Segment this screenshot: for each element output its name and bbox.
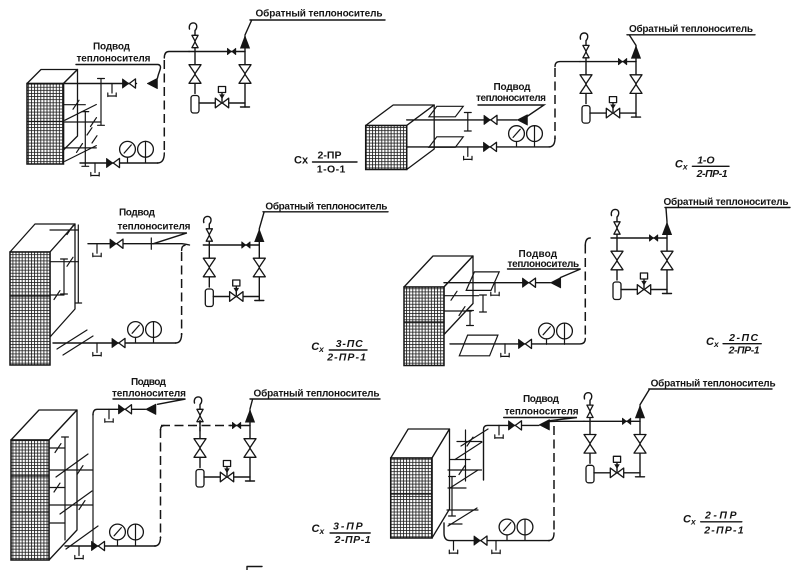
svg-text:Обратный теплоноситель: Обратный теплоноситель: [651, 377, 776, 389]
svg-text:3-ПР: 3-ПР: [333, 521, 364, 533]
svg-text:Обратный теплоноситель: Обратный теплоноситель: [254, 388, 380, 400]
svg-text:Сх: Сх: [294, 155, 309, 167]
svg-text:Обратный теплоноситель: Обратный теплоноситель: [265, 200, 387, 212]
svg-text:1-О-1: 1-О-1: [317, 163, 346, 175]
svg-text:3-ПС: 3-ПС: [336, 338, 363, 350]
svg-text:2-ПР: 2-ПР: [318, 150, 342, 162]
svg-text:2-ПР-1: 2-ПР-1: [696, 168, 728, 180]
svg-text:Подвод: Подвод: [131, 377, 167, 388]
svg-text:теплоносителя: теплоносителя: [118, 222, 191, 233]
svg-text:2-ПР: 2-ПР: [704, 510, 737, 522]
svg-text:Обратный теплоноситель: Обратный теплоноситель: [256, 8, 383, 20]
svg-text:теплоносителя: теплоносителя: [77, 54, 151, 65]
svg-text:Подвод: Подвод: [93, 42, 131, 53]
svg-text:Подвод: Подвод: [119, 208, 156, 219]
svg-text:теплоносителя: теплоносителя: [505, 407, 579, 418]
svg-text:2-ПР-1: 2-ПР-1: [728, 345, 760, 357]
svg-text:Обратный теплоноситель: Обратный теплоноситель: [664, 196, 789, 208]
svg-text:теплоносителя: теплоносителя: [112, 389, 186, 400]
svg-text:2-ПР-1: 2-ПР-1: [326, 352, 366, 364]
svg-text:1-О: 1-О: [697, 154, 714, 166]
svg-text:Обратный теплоноситель: Обратный теплоноситель: [629, 23, 753, 35]
svg-text:Подвод: Подвод: [523, 394, 560, 405]
svg-text:2-ПР-1: 2-ПР-1: [703, 524, 744, 536]
svg-text:теплоносителя: теплоносителя: [476, 93, 546, 104]
svg-text:2-ПС: 2-ПС: [728, 332, 758, 344]
svg-text:Подвод: Подвод: [494, 82, 532, 93]
svg-text:2-ПР-1: 2-ПР-1: [334, 534, 371, 546]
svg-text:теплоноситель: теплоноситель: [508, 259, 580, 270]
